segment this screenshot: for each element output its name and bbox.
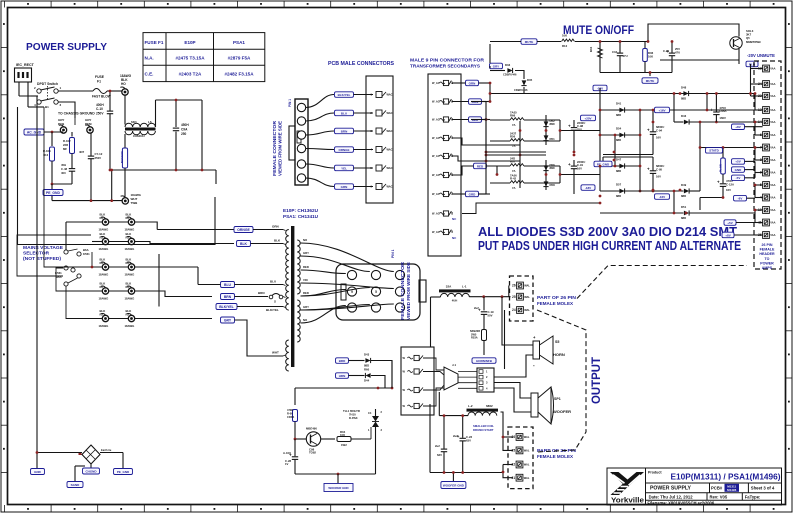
pin output 2 <box>414 369 419 374</box>
svg-text:4UH: 4UH <box>452 299 458 303</box>
pin 3 male connector <box>376 128 382 134</box>
svg-text:W_AC: W_AC <box>432 212 440 216</box>
diode D51 <box>684 211 689 216</box>
capacitor C-91 2200u <box>573 160 575 166</box>
wires ground tie <box>37 452 82 454</box>
svg-text:GRY: GRY <box>303 305 309 309</box>
svg-text:POWER: POWER <box>760 261 774 265</box>
svg-text:MF: MF <box>63 147 67 151</box>
diode D57 <box>600 190 684 192</box>
svg-text:C3W4: C3W4 <box>287 415 295 419</box>
svg-text:BLU: BLU <box>341 111 347 115</box>
svg-text:WOOFER: WOOFER <box>553 409 571 414</box>
pin molex bottom 0 <box>516 434 523 441</box>
svg-text:7A: 7A <box>512 186 516 190</box>
diode D44 <box>349 375 365 377</box>
resistor R04 thermal <box>321 438 336 440</box>
svg-text:C96A: C96A <box>719 109 726 113</box>
svg-text:MOV/275: MOV/275 <box>120 151 124 163</box>
svg-text:VAA: VAA <box>770 133 775 137</box>
capacitor C96A <box>715 94 717 112</box>
svg-text:VAA: VAA <box>770 82 775 86</box>
yorkville logo <box>610 472 644 495</box>
pin 13 26pin header <box>763 107 770 114</box>
svg-text:R2: R2 <box>100 285 104 289</box>
resistor R-06A <box>293 410 298 422</box>
label WOOFER GND2 <box>452 473 454 482</box>
svg-text:63V: 63V <box>437 453 442 457</box>
svg-text:R2: R2 <box>126 312 130 316</box>
svg-text:26: 26 <box>512 284 516 288</box>
svg-text:470K: 470K <box>287 408 293 412</box>
mid verticals <box>614 135 616 166</box>
resistor R66 7A sawtooth pair <box>510 118 524 120</box>
pin 10 26pin header <box>763 207 770 214</box>
svg-text:WAC: WAC <box>387 111 393 115</box>
svg-text:D47: D47 <box>616 158 622 162</box>
svg-text:R2: R2 <box>100 235 104 239</box>
svg-text:D43: D43 <box>681 114 687 118</box>
pin 6 male connector <box>376 184 382 190</box>
wire top long rail y93 <box>680 93 755 95</box>
net tie diamond <box>82 445 100 464</box>
transistor Q5 <box>730 37 742 49</box>
svg-text:+5V: +5V <box>727 221 732 225</box>
faston terminal at 131.5,267 <box>128 264 134 270</box>
svg-text:FAST BLOW: FAST BLOW <box>92 95 111 99</box>
label GND <box>31 469 45 475</box>
svg-text:WOOFER GND: WOOFER GND <box>328 486 348 490</box>
svg-text:R12: R12 <box>562 44 568 48</box>
svg-text:1W2: 1W2 <box>341 443 347 447</box>
svg-text:PSA1: CH1341U: PSA1: CH1341U <box>283 214 318 219</box>
fuse table <box>143 33 265 82</box>
svg-text:10K: 10K <box>340 433 345 437</box>
woofer SP1 <box>531 393 538 417</box>
svg-text:25: 25 <box>512 295 516 299</box>
svg-text:C-95: C-95 <box>656 167 663 171</box>
faston terminal at 131.5,318.5 <box>128 315 134 321</box>
labels right column <box>732 124 745 130</box>
wire gry to mute <box>490 63 503 68</box>
wires output left loop <box>439 415 468 417</box>
transformer T1 secondary winding <box>297 240 300 294</box>
svg-text:2u2: 2u2 <box>453 434 458 438</box>
svg-text:W_AC: W_AC <box>432 154 440 158</box>
label BRN <box>335 128 354 134</box>
svg-text:E10P(M1311) / PSA1(M1496): E10P(M1311) / PSA1(M1496) <box>671 473 781 482</box>
diode D56 <box>545 160 547 190</box>
svg-text:DPDT Switch: DPDT Switch <box>37 82 58 86</box>
svg-text:B1: B1 <box>45 105 49 109</box>
svg-text:6862: 6862 <box>486 404 493 408</box>
wire L1 right to molex <box>469 296 510 298</box>
svg-text:-16V: -16V <box>659 195 665 199</box>
svg-text:VAA: VAA <box>770 120 775 124</box>
svg-text:PCB MALE CONNECTORS: PCB MALE CONNECTORS <box>328 61 395 67</box>
svg-text:Earth tie: Earth tie <box>101 448 112 452</box>
inductor L-1 <box>439 289 471 292</box>
svg-text:WAL: WAL <box>524 449 530 453</box>
svg-text:R53A: R53A <box>471 336 478 340</box>
svg-text:C-94: C-94 <box>656 128 663 132</box>
svg-text:2u2: 2u2 <box>435 444 440 448</box>
svg-text:C-12A: C-12A <box>726 182 734 186</box>
pin 7 26pin header <box>763 144 770 151</box>
svg-text:D57: D57 <box>616 183 622 187</box>
svg-text:18AWG: 18AWG <box>99 247 109 251</box>
connector male 6 pin column <box>366 76 393 203</box>
svg-text:+16V: +16V <box>658 108 665 112</box>
svg-text:WAC: WAC <box>387 93 393 97</box>
svg-text:WAL: WAL <box>524 295 530 299</box>
svg-text:C.E.: C.E. <box>145 72 154 77</box>
svg-text:MBE490: MBE490 <box>306 427 317 431</box>
svg-text:J-1: J-1 <box>452 363 456 367</box>
connector block 4pin <box>477 368 494 392</box>
svg-text:+: + <box>710 108 713 113</box>
enclosure box chassis filter <box>18 107 216 245</box>
faston terminal at 131.5,241.5 <box>128 238 134 244</box>
svg-text:VAA: VAA <box>770 208 775 212</box>
svg-text:R2: R2 <box>100 261 104 265</box>
connector J-TX female 9 pin <box>336 264 420 320</box>
diode D52 <box>545 115 547 145</box>
resistor R53A <box>482 330 487 341</box>
wire pcb pin 1 <box>306 95 335 108</box>
svg-text:BLK: BLK <box>240 242 248 246</box>
svg-text:L-2: L-2 <box>468 404 473 408</box>
wire pcb pin 5 <box>306 164 335 168</box>
diode D58 <box>544 181 549 186</box>
svg-text:R2: R2 <box>126 261 130 265</box>
svg-text:VAA: VAA <box>770 233 775 237</box>
wires molex bottom stubs <box>501 412 514 450</box>
pin 4 26pin header <box>763 194 770 201</box>
svg-text:PSA1: PSA1 <box>233 40 245 45</box>
switch selector contacts <box>64 250 68 254</box>
svg-text:+: + <box>568 162 571 167</box>
svg-text:D-PAK: D-PAK <box>349 416 358 420</box>
svg-text:250: 250 <box>181 132 187 136</box>
faston 18AWG WHT <box>122 198 128 204</box>
wire thermal to transformer area <box>391 361 393 389</box>
svg-text:L-1: L-1 <box>462 285 467 289</box>
svg-text:SGND: SGND <box>71 483 81 487</box>
svg-text:-8V: -8V <box>738 197 743 201</box>
svg-text:F1: F1 <box>97 80 101 84</box>
svg-text:R2: R2 <box>100 216 104 220</box>
pin 8 9pin connector <box>443 211 448 216</box>
faston terminal at 105.5,318.5 <box>102 315 108 321</box>
wire rail y110 <box>600 109 755 111</box>
faston terminal at 131.5,291 <box>128 288 134 294</box>
svg-text:PIN 1: PIN 1 <box>288 99 292 107</box>
svg-text:10K: 10K <box>562 34 567 38</box>
pin 5 26pin header <box>763 182 770 189</box>
capacitor C-23 <box>462 416 464 438</box>
svg-text:88D: 88D <box>616 113 621 117</box>
horn S5 <box>533 341 540 359</box>
svg-text:BLK/YEL: BLK/YEL <box>219 305 234 309</box>
svg-text:YEL: YEL <box>341 166 347 170</box>
svg-text:63V: 63V <box>466 438 471 442</box>
svg-text:+: + <box>568 123 571 128</box>
svg-text:FaType:: FaType: <box>745 495 761 500</box>
svg-text:D54: D54 <box>616 127 622 131</box>
svg-text:L6: L6 <box>148 120 152 124</box>
svg-text:CHGND: CHGND <box>86 469 98 473</box>
svg-text:18AWG: 18AWG <box>99 273 109 277</box>
pin 12 26pin header <box>763 65 770 72</box>
svg-text:Product: Product <box>648 471 662 475</box>
wires block to speakers <box>494 355 533 377</box>
label BLK/YEL <box>335 92 354 98</box>
svg-text:#2482 F3.15A: #2482 F3.15A <box>224 72 254 77</box>
wire thermal top rail <box>295 387 392 389</box>
pin output 4 <box>414 403 419 408</box>
wires sawtooth connect <box>524 119 541 121</box>
svg-text:47U: 47U <box>623 54 628 58</box>
svg-text:W_AC: W_AC <box>432 136 440 140</box>
svg-text:D33: D33 <box>505 63 511 67</box>
left vertical bus <box>599 88 601 94</box>
transformer primary taps <box>283 230 286 231</box>
pin molex bottom 1 <box>516 447 523 454</box>
svg-text:K561: K561 <box>83 252 90 256</box>
common mode choke L64D <box>125 123 155 127</box>
svg-text:(NOT STUFFED): (NOT STUFFED) <box>23 256 61 262</box>
svg-text:ORNGE: ORNGE <box>237 228 250 232</box>
svg-text:MALE 9 PIN CONNECTOR FOR: MALE 9 PIN CONNECTOR FOR <box>410 58 485 63</box>
svg-text:88D: 88D <box>616 138 621 142</box>
svg-text:MUTE ON/OFF: MUTE ON/OFF <box>563 23 634 37</box>
diode D49 <box>684 189 689 194</box>
svg-text:10K: 10K <box>648 55 653 59</box>
pin 2 male connector <box>376 110 382 116</box>
svg-text:GRY: GRY <box>303 251 309 255</box>
svg-text:-5V: -5V <box>736 176 741 180</box>
wires funnel to block <box>458 371 477 373</box>
svg-text:SELECTOR: SELECTOR <box>23 251 50 257</box>
svg-text:GRY: GRY <box>224 318 232 322</box>
svg-text:250V: 250V <box>95 156 102 160</box>
svg-text:D41: D41 <box>616 102 622 106</box>
svg-text:N.A.: N.A. <box>145 56 154 61</box>
bottom rail <box>600 212 684 214</box>
label -26V <box>593 85 607 91</box>
wire long feeds <box>485 102 487 120</box>
pin 4 9pin connector <box>443 135 448 140</box>
svg-text:+5V: +5V <box>735 160 740 164</box>
wire mute top loop <box>648 24 739 42</box>
wire ORN run <box>157 229 234 231</box>
svg-text:TO CHASSIS GROUND: TO CHASSIS GROUND <box>58 112 95 116</box>
svg-text:ORN: ORN <box>469 81 476 85</box>
svg-text:FUSE: FUSE <box>95 75 105 79</box>
wire rail y200.6 <box>52 200 122 202</box>
svg-text:ORNGE: ORNGE <box>338 148 349 152</box>
label -16V <box>655 194 670 200</box>
svg-text:7A: 7A <box>512 123 516 127</box>
pin 1 9pin connector <box>443 80 448 85</box>
svg-text:5: 5 <box>375 290 377 294</box>
wire selector to rows left <box>56 268 103 291</box>
svg-text:MUTE: MUTE <box>646 79 655 83</box>
svg-text:S5: S5 <box>555 340 559 344</box>
svg-text:W_AC: W_AC <box>432 100 440 104</box>
wires transformer to connector (curved bundle) <box>301 243 394 272</box>
capacitor C-16 <box>671 42 673 53</box>
pin 24 26pin header <box>763 81 770 88</box>
svg-text:24: 24 <box>512 308 516 312</box>
label SGND <box>67 482 83 488</box>
pin 4 male connector <box>376 147 382 153</box>
svg-text:+: + <box>717 180 720 185</box>
diode D51 <box>544 135 549 140</box>
svg-text:2u2: 2u2 <box>474 306 479 310</box>
pin 6 9pin connector <box>443 172 448 177</box>
resistor R-102 <box>71 132 73 137</box>
wire switch to fuse <box>37 95 38 97</box>
pin 5 9pin connector <box>443 153 448 158</box>
svg-text:FEMALE: FEMALE <box>760 248 775 252</box>
capacitor C-48 <box>71 167 73 169</box>
svg-text:BRN: BRN <box>224 295 232 299</box>
wire mute bottom rail <box>600 72 672 74</box>
svg-text:RED: RED <box>477 164 484 168</box>
svg-text:D48: D48 <box>681 86 687 90</box>
svg-text:FUSE F1: FUSE F1 <box>145 40 164 45</box>
svg-text:VIEWED FROM WIRE SIDE: VIEWED FROM WIRE SIDE <box>278 121 283 176</box>
svg-text:VIEWED FROM WIRE SIDE: VIEWED FROM WIRE SIDE <box>406 262 411 320</box>
wire BLU run <box>221 282 235 288</box>
svg-text:50V: 50V <box>488 313 493 317</box>
label CHGND <box>83 468 100 474</box>
svg-text:VAA: VAA <box>770 158 775 162</box>
svg-text:PUT PADS UNDER HIGH CURRENT AN: PUT PADS UNDER HIGH CURRENT AND ALTERNAT… <box>478 238 741 253</box>
svg-text:18AWG: 18AWG <box>125 297 135 301</box>
svg-text:R2: R2 <box>126 285 130 289</box>
pin molex top 0 <box>517 282 524 289</box>
wire row1 col wires down <box>92 241 103 243</box>
svg-text:BLK/YEL: BLK/YEL <box>338 93 351 97</box>
svg-text:HEADER: HEADER <box>759 252 775 256</box>
capacitor C-10 <box>109 91 111 111</box>
svg-text:PE_GND: PE_GND <box>46 191 60 195</box>
faston terminal at 105.5,222 <box>102 219 108 225</box>
svg-text:PL_MU: PL_MU <box>720 164 723 172</box>
svg-text:R2: R2 <box>126 235 130 239</box>
svg-text:R04: R04 <box>589 46 593 52</box>
pin 2 9pin connector <box>443 99 448 104</box>
svg-text:400: 400 <box>61 171 66 175</box>
inductor L-2 <box>467 409 499 412</box>
wires 9pin to labels <box>466 80 479 86</box>
wire q5 collector to header <box>738 60 740 64</box>
wire bus riser x177 area: main verticals <box>485 120 487 195</box>
svg-text:GRN: GRN <box>341 185 348 189</box>
svg-text:4N7: 4N7 <box>79 150 85 154</box>
faston terminal at 105.5,241.5 <box>102 238 108 244</box>
svg-text:R-06: R-06 <box>287 411 293 415</box>
svg-text:PIN 1: PIN 1 <box>391 249 395 258</box>
svg-text:DRIVEN START: DRIVEN START <box>473 428 494 432</box>
svg-text:WAL: WAL <box>524 435 530 439</box>
svg-text:PCB: PCB <box>58 122 65 126</box>
label MUTE input <box>521 39 537 45</box>
funnel connector <box>444 367 458 390</box>
pin 6 26pin header <box>763 132 770 139</box>
svg-text:R66: R66 <box>510 114 516 118</box>
diode D48 <box>683 91 688 96</box>
svg-text:PCB#: PCB# <box>711 486 723 491</box>
svg-text:WAL: WAL <box>524 284 530 288</box>
transformer T1 core <box>291 226 294 367</box>
svg-text:ORN: ORN <box>272 225 279 229</box>
svg-text:BRN: BRN <box>258 291 265 295</box>
svg-text:WAL: WAL <box>524 308 530 312</box>
svg-text:PEM: PEM <box>85 122 92 126</box>
svg-text:VAA: VAA <box>770 171 775 175</box>
svg-text:TWB: TWB <box>131 201 139 205</box>
label YEL <box>335 165 354 171</box>
wire IEC pins down <box>18 82 20 96</box>
svg-text:+8V: +8V <box>735 125 740 129</box>
svg-text:PART OF 26 PIN: PART OF 26 PIN <box>537 295 576 300</box>
capacitor C34 <box>619 42 621 53</box>
label MUTE2 <box>649 73 651 77</box>
svg-text:GRD: GRD <box>469 192 477 196</box>
wire L1 left drop <box>431 296 441 298</box>
svg-text:#2403 T2A: #2403 T2A <box>179 72 202 77</box>
svg-text:VAA: VAA <box>770 146 775 150</box>
wires header stubs <box>745 126 763 128</box>
wire fuse to faston <box>107 90 122 92</box>
svg-text:WOOFER GND: WOOFER GND <box>443 483 465 487</box>
svg-text:26 PIN: 26 PIN <box>762 243 773 247</box>
svg-text:E10P: E10P <box>184 40 195 45</box>
pin 9 9pin connector <box>443 229 448 234</box>
label WOOFER GND <box>337 474 339 483</box>
wire faston down to choke <box>124 95 126 125</box>
svg-text:47U: 47U <box>675 51 680 55</box>
svg-text:TO92: TO92 <box>309 451 316 455</box>
svg-text:R67: R67 <box>510 160 516 164</box>
svg-text:7A: 7A <box>512 169 516 173</box>
pin molex top 2 <box>517 307 524 314</box>
wire row4 right <box>135 291 213 297</box>
capacitor C-94 <box>652 110 654 131</box>
svg-text:VAA: VAA <box>770 183 775 187</box>
diode D54 <box>600 134 640 136</box>
svg-text:S: S <box>274 300 276 304</box>
wire mid rails <box>486 151 546 153</box>
svg-text:C-10: C-10 <box>96 107 103 111</box>
junction dots rectifier <box>489 92 492 95</box>
diode D41 <box>619 108 624 113</box>
label AC_GND <box>24 129 44 135</box>
svg-text:R2: R2 <box>100 312 104 316</box>
svg-text:W_AC: W_AC <box>432 230 440 234</box>
label BLU <box>335 110 354 116</box>
label -18V <box>581 185 595 191</box>
svg-text:-18V: -18V <box>585 186 591 190</box>
resistor R36 vertical <box>644 42 646 49</box>
svg-text:WAL: WAL <box>524 463 530 467</box>
svg-text:STATD: STATD <box>709 149 719 153</box>
faston GRY PCB <box>60 127 66 133</box>
